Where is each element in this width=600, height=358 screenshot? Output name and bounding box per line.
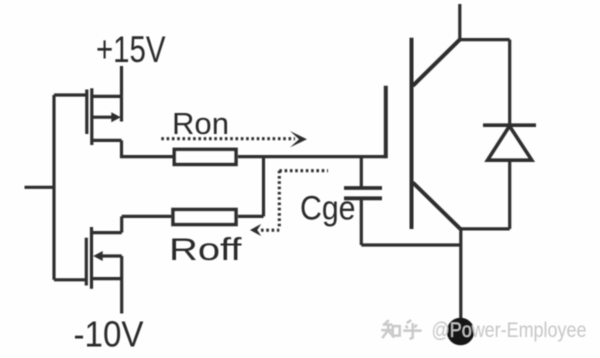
wire Roff to junction (238, 215, 264, 218)
transistor Q1 (P-MOSFET, high-side driver) (87, 88, 122, 145)
resistor Ron (174, 149, 236, 164)
wire Q1 drain to Ron (122, 140, 173, 156)
turn-on current arrow (dotted) (161, 131, 307, 147)
wire +15V supply to Q1 source (120, 66, 123, 96)
wire input bus (52, 95, 55, 280)
svg-text:Cge: Cge (300, 190, 356, 228)
wire collector to diode branch (460, 38, 510, 41)
wire emitter down to terminal (459, 229, 462, 318)
wire Q1 gate (54, 93, 87, 96)
svg-text:Ron: Ron (172, 106, 229, 141)
capacitor Cge (344, 157, 382, 245)
resistor Roff (173, 210, 236, 225)
wire Roff to Q2 drain (122, 215, 172, 218)
svg-text:+15V: +15V (96, 29, 166, 70)
svg-text:@Power-Employee: @Power-Employee (432, 318, 587, 342)
wire Ron to IGBT gate (238, 155, 386, 158)
wire input stub (25, 186, 55, 189)
svg-text:Roff: Roff (169, 231, 242, 267)
transistor Q2 (N-MOSFET, low-side driver) (86, 227, 121, 289)
wire collector top (458, 4, 461, 40)
wire diode branch lower (508, 160, 511, 229)
wire emitter to diode branch (460, 227, 509, 230)
watermark 乎 (403, 320, 422, 339)
watermark 知 (381, 320, 400, 338)
diode D1 (freewheeling) (483, 125, 536, 160)
wire emitter return (Cge to emitter) (361, 243, 460, 246)
wire junction Ron/Roff (262, 157, 265, 217)
wire Q2 drain to Roff node (120, 216, 123, 232)
wire diode branch upper (508, 40, 511, 126)
IGBT Q3 (386, 38, 461, 229)
wire Q2 source to -10V (120, 256, 123, 314)
terminal dot (447, 318, 475, 346)
wire Q2 gate (54, 278, 86, 281)
turn-off current arrow (dotted) (250, 171, 328, 236)
svg-text:-10V: -10V (74, 314, 144, 355)
